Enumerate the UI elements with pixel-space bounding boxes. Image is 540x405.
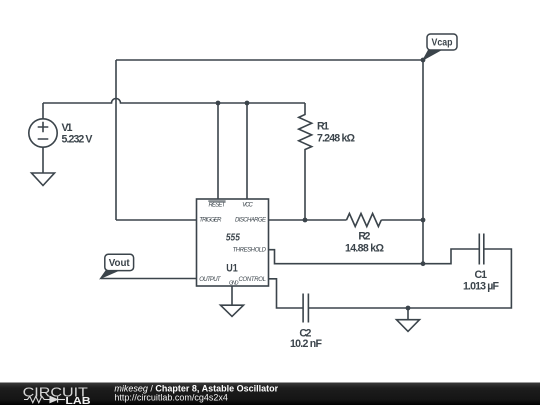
wire ground stub C1C2 rail <box>407 308 409 320</box>
svg-text:V1: V1 <box>62 122 73 134</box>
svg-text:THRESHOLD: THRESHOLD <box>233 247 267 253</box>
svg-text:C1: C1 <box>475 269 488 281</box>
capacitor C2 <box>303 294 308 323</box>
svg-text:http://circuitlab.com/cg4s2x4: http://circuitlab.com/cg4s2x4 <box>114 393 228 403</box>
flag Vout <box>100 254 133 278</box>
wire output <box>100 278 196 280</box>
svg-text:DISCHARGE: DISCHARGE <box>235 218 267 224</box>
svg-text:CONTROL: CONTROL <box>239 277 267 283</box>
flag Vcap <box>423 34 457 60</box>
svg-text:LAB: LAB <box>65 396 90 405</box>
capacitor C1 <box>479 234 484 265</box>
node threshold vcap <box>421 261 426 266</box>
footer bar <box>0 383 540 405</box>
wire vcap vertical <box>422 60 424 264</box>
svg-text:R1: R1 <box>317 121 329 133</box>
overline RESET <box>208 200 225 202</box>
wire V1 to R1 with hop <box>43 99 305 104</box>
svg-text:5.232 V: 5.232 V <box>62 133 93 145</box>
svg-text:OUTPUT: OUTPUT <box>199 277 222 283</box>
wire top rail <box>116 59 423 61</box>
svg-text:7.248 kΩ: 7.248 kΩ <box>317 132 356 144</box>
wire C1 to bottom rail <box>308 249 511 308</box>
svg-text:U1: U1 <box>226 262 238 274</box>
svg-text:TRIGGER: TRIGGER <box>199 218 222 224</box>
resistor R1 <box>299 103 312 220</box>
svg-text:R2: R2 <box>358 230 370 242</box>
svg-text:555: 555 <box>226 231 240 243</box>
wire discharge row left <box>269 219 347 221</box>
ground on bottom rail <box>397 320 420 332</box>
ground below 555 <box>221 305 244 316</box>
wire threshold <box>269 249 480 264</box>
node R1 discharge <box>303 218 308 223</box>
svg-text:GND: GND <box>229 280 239 286</box>
svg-text:10.2 nF: 10.2 nF <box>290 338 323 350</box>
node vcap flag <box>421 58 426 63</box>
wire trigger <box>116 219 197 221</box>
logo symbol <box>24 396 65 402</box>
svg-text:1.013 µF: 1.013 µF <box>463 280 500 292</box>
wire left vertical <box>115 60 117 220</box>
resistor R2 <box>347 214 382 227</box>
node reset-vdd <box>216 101 221 106</box>
wire reset stub <box>217 103 219 199</box>
svg-text:VCC: VCC <box>242 203 253 209</box>
svg-text:14.88 kΩ: 14.88 kΩ <box>345 243 385 255</box>
svg-text:Vout: Vout <box>109 258 131 269</box>
ground below V1 <box>32 173 55 186</box>
wire control <box>269 279 304 308</box>
voltage source V1 <box>29 103 57 173</box>
node R2 vcap <box>421 218 426 223</box>
svg-text:RESET: RESET <box>209 203 227 209</box>
wire vcc stub <box>246 103 248 199</box>
op-amp U1 555 box <box>197 199 269 286</box>
wire discharge row right <box>381 219 423 221</box>
wire gnd stub 555 <box>231 286 233 305</box>
node vcc-vdd <box>245 101 250 106</box>
node ground rail <box>406 306 411 311</box>
svg-text:Vcap: Vcap <box>432 38 453 49</box>
